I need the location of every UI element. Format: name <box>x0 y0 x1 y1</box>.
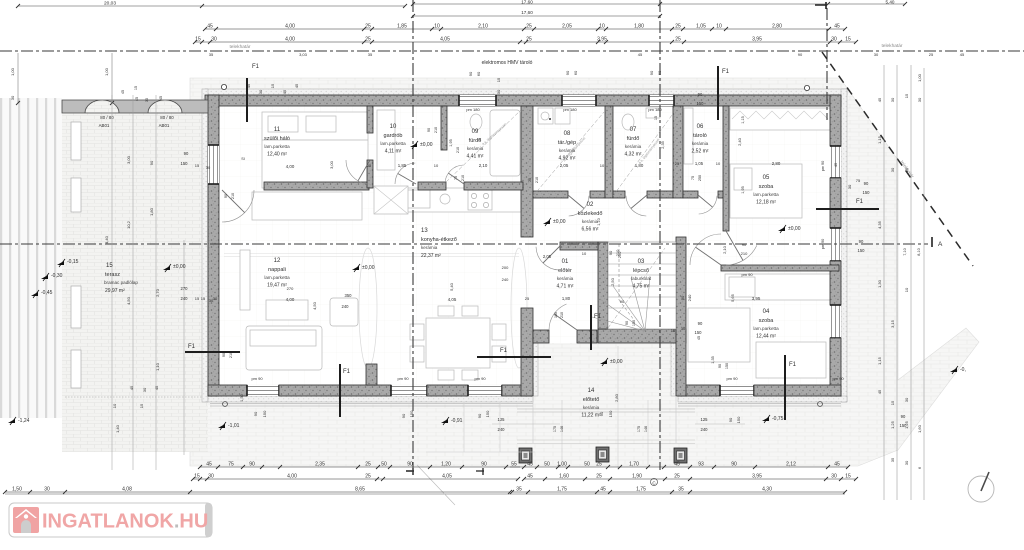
svg-text:75: 75 <box>528 178 532 182</box>
svg-text:-1,01: -1,01 <box>228 423 240 429</box>
flag m124 <box>8 419 15 423</box>
flag pm0 terasz <box>163 266 170 270</box>
svg-text:10: 10 <box>716 161 721 166</box>
svg-text:2,40: 2,40 <box>737 137 742 146</box>
svg-text:90: 90 <box>427 128 431 132</box>
survey circle b <box>804 85 809 90</box>
svg-text:15: 15 <box>194 474 200 480</box>
svg-text:15: 15 <box>195 37 201 43</box>
svg-text:30: 30 <box>206 165 211 170</box>
svg-text:11,22 m²: 11,22 m² <box>581 413 601 419</box>
svg-text:-0,75: -0,75 <box>772 416 784 422</box>
bottom wall right seg b <box>754 385 841 396</box>
svg-text:1,75: 1,75 <box>636 487 646 493</box>
svg-text:50: 50 <box>584 462 590 468</box>
svg-text:±0,00: ±0,00 <box>173 264 186 270</box>
svg-text:15: 15 <box>845 37 851 43</box>
door room 04 <box>690 234 721 265</box>
exterior wall top <box>205 95 841 106</box>
svg-text:kerámia: kerámia <box>625 144 642 149</box>
svg-text:55: 55 <box>511 462 517 468</box>
F1 marker 7 <box>185 351 240 353</box>
svg-text:kerámia: kerámia <box>583 405 600 410</box>
svg-text:±0,00: ±0,00 <box>610 359 623 365</box>
svg-text:15: 15 <box>201 296 206 301</box>
svg-text:75: 75 <box>228 462 234 468</box>
svg-text:telekhatár: telekhatár <box>229 44 250 50</box>
wardrobe room 10 <box>377 110 395 170</box>
bottom dim row 1 left <box>200 466 520 468</box>
svg-text:4,30: 4,30 <box>762 487 772 493</box>
svg-text:1,00: 1,00 <box>10 67 15 76</box>
window pm180 room08 <box>562 95 596 106</box>
flag pm0 nappali <box>352 266 359 270</box>
insulation porch east face <box>671 343 676 396</box>
svg-text:1,75: 1,75 <box>557 487 567 493</box>
svg-text:17,60: 17,60 <box>521 0 533 5</box>
svg-text:200: 200 <box>502 265 509 270</box>
svg-text:35: 35 <box>890 457 895 462</box>
svg-text:25: 25 <box>525 296 530 301</box>
F1 marker 2 <box>717 66 719 120</box>
partition rooms bottom 09 <box>464 182 523 190</box>
flag m04 right <box>950 368 957 372</box>
svg-text:1,80: 1,80 <box>634 24 644 30</box>
F1 marker 5 <box>816 208 879 210</box>
svg-text:150: 150 <box>858 248 866 253</box>
stair west wall <box>598 242 608 329</box>
svg-text:125: 125 <box>498 417 506 422</box>
svg-text:75: 75 <box>691 176 695 180</box>
svg-text:35: 35 <box>368 52 373 57</box>
window right wall room04 <box>830 305 841 338</box>
svg-text:30: 30 <box>142 387 147 392</box>
washer room 08 <box>538 108 553 124</box>
svg-text:F1: F1 <box>188 344 196 350</box>
bottom dim row 2 right <box>524 478 856 480</box>
svg-text:1,60: 1,60 <box>917 424 922 433</box>
svg-text:07: 07 <box>630 127 637 133</box>
left dim 1,00 house <box>111 53 113 103</box>
svg-text:2,52 m²: 2,52 m² <box>692 149 709 155</box>
terrace dim lines <box>111 95 113 470</box>
door room 10 <box>395 163 415 184</box>
svg-text:35: 35 <box>516 487 522 493</box>
svg-text:3,95: 3,95 <box>597 37 607 43</box>
svg-text:2,05: 2,05 <box>543 254 552 259</box>
partition rooms bottom 10 <box>418 182 446 190</box>
svg-text:210: 210 <box>535 177 539 183</box>
svg-text:4,50: 4,50 <box>312 301 317 310</box>
svg-text:12,40 m²: 12,40 m² <box>267 152 287 158</box>
svg-text:-0,15: -0,15 <box>67 259 79 265</box>
axis x413 end tick <box>406 468 414 475</box>
svg-text:30: 30 <box>145 98 149 102</box>
svg-text:75: 75 <box>454 176 458 180</box>
svg-text:05: 05 <box>763 175 770 181</box>
door room 05 <box>726 245 757 265</box>
axis top tick right <box>815 2 827 9</box>
white cut above telekhatar top-left <box>0 0 190 52</box>
bottom wall seg c <box>427 385 468 396</box>
top dim row 2 <box>205 28 845 30</box>
svg-text:240: 240 <box>701 427 709 432</box>
wc room 07 <box>622 114 634 130</box>
insulation right <box>841 89 847 402</box>
svg-text:faburkolat: faburkolat <box>631 276 652 281</box>
top dim 17,60 a <box>413 3 660 5</box>
wall kitchen-hall east <box>521 106 533 237</box>
F1 marker 8 <box>590 305 592 350</box>
svg-text:90: 90 <box>249 462 255 468</box>
svg-text:25: 25 <box>596 462 602 468</box>
svg-text:1,80: 1,80 <box>149 207 154 216</box>
svg-text:F1: F1 <box>722 69 730 75</box>
svg-text:±0,00: ±0,00 <box>788 226 801 232</box>
kitchen counter <box>402 188 521 212</box>
svg-text:15: 15 <box>654 116 658 120</box>
partition rooms bottom 11 <box>264 182 369 190</box>
svg-text:7,10: 7,10 <box>903 248 907 255</box>
svg-text:90: 90 <box>742 242 747 247</box>
svg-text:1,70: 1,70 <box>629 462 639 468</box>
porch floor <box>533 343 666 443</box>
roof projection lens b <box>511 248 527 368</box>
wardrobe room 04 <box>725 274 833 300</box>
dining table <box>426 318 490 368</box>
partition 11-10 lower <box>367 160 373 188</box>
svg-text:1,25: 1,25 <box>890 420 895 429</box>
svg-text:19,47 m²: 19,47 m² <box>267 283 287 289</box>
sill lines below left block <box>210 404 533 407</box>
armchair nappali <box>330 298 358 326</box>
svg-text:-0,45: -0,45 <box>41 290 53 296</box>
F1 marker 1 <box>246 78 248 122</box>
svg-text:tároló: tároló <box>693 133 707 139</box>
svg-text:10: 10 <box>434 163 439 168</box>
svg-text:50: 50 <box>544 462 550 468</box>
svg-text:15: 15 <box>195 296 200 301</box>
svg-text:210: 210 <box>741 251 748 256</box>
svg-text:2,80: 2,80 <box>772 24 782 30</box>
svg-text:04: 04 <box>763 309 770 315</box>
svg-text:250: 250 <box>698 175 702 181</box>
bottom wall right seg a <box>678 385 720 396</box>
svg-text:50: 50 <box>381 462 387 468</box>
svg-text:90: 90 <box>620 299 625 304</box>
svg-text:6: 6 <box>917 466 922 469</box>
bottom wall seg b <box>279 385 391 396</box>
door room 09 <box>445 165 463 183</box>
porch column 2 <box>596 447 609 462</box>
window nappali 1 <box>247 385 279 396</box>
svg-text:1,80: 1,80 <box>562 296 571 301</box>
svg-text:2,35: 2,35 <box>315 462 325 468</box>
svg-text:5,65: 5,65 <box>730 293 735 302</box>
svg-text:2,35: 2,35 <box>661 141 665 148</box>
entry door <box>549 304 567 330</box>
exterior wall left <box>208 95 219 396</box>
bottom wall seg d <box>502 385 533 396</box>
svg-text:bramac padlólap: bramac padlólap <box>104 280 138 285</box>
svg-text:350: 350 <box>345 293 353 298</box>
svg-text:11: 11 <box>274 127 281 133</box>
svg-text:150: 150 <box>409 410 414 417</box>
svg-text:90: 90 <box>468 71 473 76</box>
svg-text:90: 90 <box>718 364 722 368</box>
vent duct room 09 <box>446 110 521 182</box>
svg-text:150: 150 <box>632 320 636 326</box>
staircase room 03 <box>608 242 676 329</box>
top dim 17,60 b <box>413 15 660 17</box>
svg-text:2,10: 2,10 <box>478 24 488 30</box>
svg-text:210: 210 <box>461 175 465 181</box>
section A marker <box>931 237 933 247</box>
svg-text:pm 90: pm 90 <box>251 376 263 381</box>
svg-text:1,50: 1,50 <box>240 394 244 401</box>
insulation bottom right block <box>678 396 847 402</box>
svg-text:3,95: 3,95 <box>752 296 761 301</box>
top dim 20,03 <box>18 5 405 7</box>
svg-text:45: 45 <box>159 96 163 100</box>
exterior wall right seg3 <box>830 261 841 305</box>
flag m030 terasz <box>41 275 48 279</box>
door room 07 <box>626 196 646 216</box>
partition 10-09 upper <box>441 106 447 150</box>
svg-text:35: 35 <box>209 52 214 57</box>
flag m045 terasz <box>31 292 38 296</box>
svg-text:30: 30 <box>213 296 218 301</box>
svg-text:15: 15 <box>904 167 909 172</box>
svg-text:15: 15 <box>139 403 144 408</box>
svg-text:2,80: 2,80 <box>772 161 781 166</box>
bed room 11 <box>262 112 368 188</box>
svg-text:90: 90 <box>608 250 613 255</box>
svg-text:25: 25 <box>674 474 680 480</box>
svg-text:35: 35 <box>678 487 684 493</box>
svg-text:kerámia: kerámia <box>692 141 709 146</box>
svg-text:4,05: 4,05 <box>442 474 452 480</box>
room04 top wall <box>721 265 839 271</box>
wardrobe nappali north <box>252 192 362 220</box>
svg-text:45: 45 <box>960 52 965 57</box>
svg-text:45: 45 <box>129 385 134 390</box>
svg-text:30: 30 <box>208 474 214 480</box>
flag pm0 porch <box>600 360 607 364</box>
svg-text:15: 15 <box>106 263 113 269</box>
bed room 04 <box>688 308 750 362</box>
svg-text:15: 15 <box>671 328 676 333</box>
left striped strip <box>0 98 62 418</box>
svg-text:kerámia: kerámia <box>557 276 574 281</box>
svg-text:175: 175 <box>553 426 557 432</box>
flag m101 <box>218 424 225 428</box>
partition 07-06 <box>673 106 683 198</box>
svg-text:90: 90 <box>481 462 487 468</box>
sofa nappali <box>246 326 322 370</box>
svg-text:szülői háló: szülői háló <box>264 136 290 142</box>
flag m091 <box>441 419 448 423</box>
svg-text:lam.parketta: lam.parketta <box>753 192 779 197</box>
svg-text:1,30: 1,30 <box>877 279 882 288</box>
svg-text:3,95: 3,95 <box>752 37 762 43</box>
svg-text:F1: F1 <box>252 64 260 70</box>
svg-text:93: 93 <box>698 462 704 468</box>
svg-text:150: 150 <box>485 410 490 417</box>
svg-text:pm 90: pm 90 <box>832 376 844 381</box>
svg-text:4,40: 4,40 <box>104 235 109 244</box>
exterior wall right seg4 <box>830 338 841 396</box>
elbow mark bottom <box>476 468 484 475</box>
svg-text:06: 06 <box>697 124 704 130</box>
svg-text:270: 270 <box>287 286 294 291</box>
svg-text:8,10: 8,10 <box>917 248 921 255</box>
svg-text:2,70: 2,70 <box>155 288 160 297</box>
svg-text:4,75 m²: 4,75 m² <box>633 284 650 290</box>
svg-text:5,40: 5,40 <box>449 282 454 291</box>
svg-text:4,35: 4,35 <box>877 220 882 229</box>
svg-text:45: 45 <box>877 389 882 394</box>
svg-text:150: 150 <box>725 363 729 369</box>
svg-text:közlekedő: közlekedő <box>578 211 603 217</box>
svg-text:2,80: 2,80 <box>614 393 619 402</box>
svg-text:45: 45 <box>834 24 840 30</box>
svg-text:150: 150 <box>697 101 705 106</box>
svg-text:lam.parketta: lam.parketta <box>264 144 290 149</box>
svg-text:1,95: 1,95 <box>449 139 453 146</box>
svg-text:60: 60 <box>657 70 662 75</box>
svg-text:fürdő: fürdő <box>627 136 640 142</box>
svg-text:25: 25 <box>929 52 934 57</box>
svg-text:AB01: AB01 <box>99 123 110 128</box>
svg-text:13: 13 <box>421 228 428 234</box>
window nappali 2 <box>391 385 427 396</box>
svg-text:90: 90 <box>625 321 629 325</box>
svg-text:F1: F1 <box>500 348 508 354</box>
svg-text:kerámia: kerámia <box>421 245 438 250</box>
svg-text:10: 10 <box>112 403 117 408</box>
svg-text:90: 90 <box>649 70 654 75</box>
svg-text:szoba: szoba <box>759 318 775 324</box>
svg-text:F1: F1 <box>594 314 602 320</box>
svg-text:25: 25 <box>675 37 681 43</box>
svg-text:előtető: előtető <box>583 397 600 403</box>
svg-text:90: 90 <box>253 411 258 416</box>
flag pm0 kitchen top <box>410 143 417 147</box>
svg-text:-0,: -0, <box>960 367 966 373</box>
svg-text:±0,00: ±0,00 <box>362 265 375 271</box>
svg-text:10: 10 <box>600 163 605 168</box>
svg-text:pm 180: pm 180 <box>648 107 662 112</box>
svg-text:45: 45 <box>527 462 533 468</box>
bed room 05 <box>730 164 802 218</box>
svg-text:25: 25 <box>675 161 680 166</box>
svg-text:30: 30 <box>211 37 217 43</box>
svg-text:90: 90 <box>698 321 703 326</box>
svg-text:kerámia: kerámia <box>559 148 576 153</box>
svg-text:30: 30 <box>496 89 501 94</box>
partition 07 bottom <box>613 191 625 198</box>
partition 07 bottom b <box>647 191 673 198</box>
svg-text:4,05: 4,05 <box>440 37 450 43</box>
svg-text:telekhatár: telekhatár <box>881 43 902 49</box>
svg-text:90: 90 <box>901 414 906 419</box>
porch column 1 <box>519 448 532 463</box>
svg-text:90: 90 <box>184 151 189 156</box>
svg-text:3,95: 3,95 <box>752 474 762 480</box>
svg-text:12: 12 <box>274 258 281 264</box>
svg-text:1,00: 1,00 <box>104 67 109 76</box>
svg-text:1,85: 1,85 <box>397 24 407 30</box>
svg-text:4,00: 4,00 <box>285 37 295 43</box>
window right wall room05 <box>830 146 841 178</box>
svg-text:tár./gép: tár./gép <box>558 140 576 146</box>
svg-text:F1: F1 <box>789 362 797 368</box>
svg-text:90: 90 <box>864 181 869 186</box>
svg-text:90: 90 <box>222 353 226 357</box>
flag pm0 room05 <box>778 227 785 231</box>
svg-text:175: 175 <box>637 426 641 432</box>
svg-text:4,08: 4,08 <box>122 487 132 493</box>
svg-text:4,92 m²: 4,92 m² <box>559 156 576 162</box>
svg-text:4,00: 4,00 <box>287 474 297 480</box>
svg-text:150: 150 <box>262 410 267 417</box>
watermark logo <box>13 507 39 533</box>
svg-text:29,97 m²: 29,97 m² <box>105 288 125 294</box>
flag m075 <box>762 417 769 421</box>
wall corridor bottom <box>560 242 598 250</box>
svg-text:150: 150 <box>900 423 908 428</box>
flag pm0 corridor <box>543 220 550 224</box>
svg-text:pm 90: pm 90 <box>726 376 738 381</box>
svg-text:4,00: 4,00 <box>286 164 295 169</box>
svg-text:30: 30 <box>917 97 922 102</box>
svg-text:elektromos HMV tároló: elektromos HMV tároló <box>482 60 533 66</box>
svg-text:2,12: 2,12 <box>786 462 796 468</box>
svg-text:1,05: 1,05 <box>696 24 706 30</box>
svg-text:22,37 m²: 22,37 m² <box>421 253 441 259</box>
exterior wall right seg1 <box>830 95 841 146</box>
window pm180 room09 <box>459 95 496 106</box>
insulation top <box>205 89 847 95</box>
svg-text:25: 25 <box>365 474 371 480</box>
porch column 3 <box>674 448 687 463</box>
porch interior dim lines <box>562 346 648 470</box>
terrace boundary dotted <box>65 396 205 398</box>
svg-text:60: 60 <box>476 71 481 76</box>
svg-text:90: 90 <box>859 239 864 244</box>
bathtub room 09 <box>490 110 520 176</box>
svg-text:240: 240 <box>342 304 350 309</box>
svg-text:3,03: 3,03 <box>299 52 308 57</box>
svg-text:-0,30: -0,30 <box>51 273 63 279</box>
svg-text:45: 45 <box>877 97 882 102</box>
svg-text:pm 180: pm 180 <box>563 107 577 112</box>
terrace paving (terasz) <box>62 100 208 452</box>
svg-text:pm 90: pm 90 <box>474 376 486 381</box>
svg-text:10: 10 <box>582 251 587 256</box>
svg-text:10: 10 <box>904 287 909 292</box>
svg-text:3,15: 3,15 <box>890 319 895 328</box>
svg-text:1,15: 1,15 <box>877 356 882 365</box>
svg-text:80 / 80: 80 / 80 <box>160 115 174 120</box>
window room04 south <box>720 385 754 396</box>
pantry box kitchen <box>374 186 408 214</box>
terrace slot 3 <box>71 286 81 328</box>
partition 08 bottom <box>533 191 568 198</box>
svg-text:150: 150 <box>695 330 703 335</box>
svg-text:5,40: 5,40 <box>886 0 895 5</box>
